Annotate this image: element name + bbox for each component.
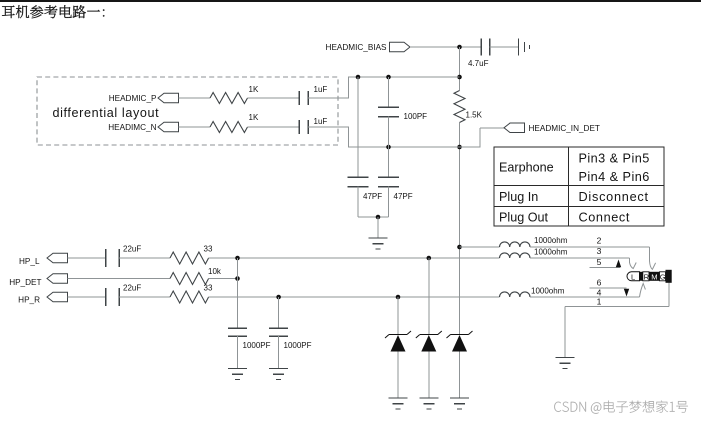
ground (D3) xyxy=(450,397,469,399)
junction dot HP_L/det xyxy=(235,256,240,261)
tvs diode D2 xyxy=(420,334,438,336)
wire HP_R to tvs1 xyxy=(397,297,399,335)
svg-text:HEADIMC_N: HEADIMC_N xyxy=(108,123,156,132)
svg-text:Plug In: Plug In xyxy=(499,190,538,204)
svg-text:6: 6 xyxy=(597,278,602,288)
svg-text:HEADMIC_BIAS: HEADMIC_BIAS xyxy=(326,43,388,52)
svg-text:1000ohm: 1000ohm xyxy=(534,236,568,245)
title 耳机参考电路一： xyxy=(2,5,104,18)
svg-text:HP_L: HP_L xyxy=(19,257,40,266)
ground (D2) xyxy=(419,397,438,399)
junction dot rail147/main xyxy=(457,145,462,150)
resistor R 1K (N) xyxy=(210,122,248,133)
junction dot 47pf join xyxy=(376,215,381,220)
junction dot HP_R/cap2 xyxy=(276,295,281,300)
wire HP_L to cap xyxy=(68,257,106,259)
wire 47pf join xyxy=(357,187,359,218)
wire 10k to junction xyxy=(209,278,238,280)
wire 33 to bead3 xyxy=(209,296,500,298)
svg-text:Pin4 & Pin6: Pin4 & Pin6 xyxy=(579,170,650,184)
svg-text:Plug Out: Plug Out xyxy=(499,211,549,225)
svg-text:1000ohm: 1000ohm xyxy=(531,287,565,296)
wire HP_R to cap2 xyxy=(278,297,280,328)
resistor 33 (L) xyxy=(170,252,209,264)
wire tvs2 to ground xyxy=(428,352,430,399)
resistor R 1K (P) xyxy=(210,93,248,104)
wire cap2 to ground xyxy=(278,336,280,369)
wire main vertical lower xyxy=(459,123,461,335)
svg-text:L: L xyxy=(631,273,635,282)
ferrite bead FB2 1000ohm xyxy=(500,253,531,258)
wire R to C (P) xyxy=(248,97,300,99)
junction dot 100pf/rail147 xyxy=(386,145,391,150)
svg-text:33: 33 xyxy=(204,245,213,254)
capacitor 47PF B xyxy=(378,176,399,178)
svg-text:22uF: 22uF xyxy=(123,284,141,293)
port HEADMIC_BIAS xyxy=(390,42,411,52)
junction dot 47pfA/rail77 xyxy=(356,75,361,80)
wire HP_R to cap xyxy=(68,296,106,298)
svg-text:33: 33 xyxy=(204,284,213,293)
tvs diode D1 xyxy=(389,334,407,336)
svg-text:47PF: 47PF xyxy=(363,192,382,201)
svg-text:HEADMIC_P: HEADMIC_P xyxy=(109,94,157,103)
wire HP_DET to R xyxy=(68,278,171,280)
capacitor 1000PF 1 xyxy=(228,327,247,329)
wire cap to R (L) xyxy=(119,257,170,259)
tvs diode D3 xyxy=(451,334,469,336)
wire BIAS to cap xyxy=(410,46,481,48)
svg-text:differential layout: differential layout xyxy=(53,106,160,120)
ground (1000PF 1) xyxy=(228,368,247,370)
hook pin3 to tip xyxy=(630,258,637,269)
wire 33 to bead2 xyxy=(209,257,500,259)
svg-text:4.7uF: 4.7uF xyxy=(468,59,489,68)
svg-text:22uF: 22uF xyxy=(123,245,141,254)
wire cap1 to ground xyxy=(237,336,239,369)
svg-text:HEADMIC_IN_DET: HEADMIC_IN_DET xyxy=(529,124,600,133)
top border rule xyxy=(0,0,701,2)
svg-text:1K: 1K xyxy=(249,85,259,94)
wire bead3 to pin4 xyxy=(530,296,640,298)
svg-text:Disconnect: Disconnect xyxy=(579,190,649,204)
port HEADIMC_N xyxy=(158,122,179,132)
junction dot 100pf/rail77 xyxy=(386,75,391,80)
svg-text:1uF: 1uF xyxy=(314,85,328,94)
svg-text:G: G xyxy=(660,273,666,282)
svg-text:HP_R: HP_R xyxy=(18,296,40,305)
resistor 33 (R) xyxy=(170,291,209,303)
pin5 arrow xyxy=(616,260,621,268)
ground (D1) xyxy=(389,397,408,399)
ground (47PF) xyxy=(369,237,388,239)
junction dot bead1/main xyxy=(457,245,462,250)
capacitor 4.7uF xyxy=(480,39,482,56)
wire HP_L to tvs2 xyxy=(428,258,430,335)
port HP_DET xyxy=(47,274,68,284)
hook pin4 to R xyxy=(640,284,646,298)
svg-text:M: M xyxy=(651,273,657,282)
wire rail77 to 47pfA xyxy=(357,77,359,177)
svg-text:Pin3 & Pin5: Pin3 & Pin5 xyxy=(579,152,650,166)
port HP_R xyxy=(47,292,68,302)
svg-text:1000PF: 1000PF xyxy=(243,341,271,350)
hook pin2 to M xyxy=(650,261,656,269)
wire cap to ground xyxy=(490,46,519,48)
table frame xyxy=(494,147,664,226)
svg-text:Earphone: Earphone xyxy=(499,161,554,175)
capacitor 22uF (R) xyxy=(105,288,107,306)
wire main to bead1 xyxy=(460,246,500,248)
wire C to bend (N) xyxy=(308,126,349,128)
pin1 line xyxy=(565,306,669,308)
resistor 10k xyxy=(170,273,209,285)
wire HEADMIC_P to R xyxy=(179,97,211,99)
junction dot HP_L/tvs2 xyxy=(427,256,432,261)
wire tvs1 to ground xyxy=(397,352,399,399)
capacitor 47PF A xyxy=(348,176,369,178)
headphone jack plug (L R M G) xyxy=(627,272,640,281)
ground (bias, rotated) xyxy=(518,39,520,56)
ground (1000PF 2) xyxy=(269,368,288,370)
port HEADMIC_P xyxy=(158,93,179,103)
svg-text:1000PF: 1000PF xyxy=(284,341,312,350)
wire tvs3 to ground xyxy=(459,352,461,399)
wire HEADIMC_N to R xyxy=(179,126,211,128)
svg-text:3: 3 xyxy=(597,246,602,256)
svg-text:100PF: 100PF xyxy=(404,112,428,121)
wire R to C (N) xyxy=(248,126,300,128)
resistor 1.5K xyxy=(454,91,465,123)
wire bead1 to pin2 xyxy=(530,246,650,248)
capacitor 22uF (L) xyxy=(105,249,107,267)
port HEADMIC_IN_DET xyxy=(504,123,525,133)
port HP_L xyxy=(47,253,68,263)
watermark CSDN xyxy=(554,401,688,414)
svg-text:1000ohm: 1000ohm xyxy=(534,248,568,257)
svg-text:5: 5 xyxy=(597,257,602,267)
wire main vertical upper xyxy=(459,47,461,91)
wire bead2 to pin3 xyxy=(530,257,630,259)
svg-text:1K: 1K xyxy=(249,113,259,122)
pin5 line xyxy=(590,267,621,269)
junction dot rail77/main xyxy=(457,75,462,80)
junction dot bias/main xyxy=(457,45,462,50)
pin6 arrow xyxy=(624,289,629,297)
junction dot HP_R/tvs1 xyxy=(396,295,401,300)
svg-text:Connect: Connect xyxy=(579,211,630,225)
svg-text:R: R xyxy=(644,273,650,282)
capacitor 100PF xyxy=(378,106,399,108)
svg-text:47PF: 47PF xyxy=(394,192,413,201)
ferrite bead FB3 1000ohm xyxy=(500,292,531,297)
capacitor 1uF (P) xyxy=(298,91,300,105)
wire join to ground xyxy=(377,217,379,238)
svg-text:HP_DET: HP_DET xyxy=(9,278,41,287)
svg-text:1: 1 xyxy=(597,297,602,307)
wire step to DET port xyxy=(479,128,481,148)
ground (pin1) xyxy=(556,357,575,359)
svg-text:1uF: 1uF xyxy=(314,117,328,126)
wire rail147 to 47pfB xyxy=(388,147,390,177)
capacitor 1uF (N) xyxy=(298,120,300,134)
pin6 line xyxy=(590,287,627,289)
wire C to bend (P) xyxy=(308,97,349,99)
wire cap to R (R) xyxy=(119,296,170,298)
ferrite bead FB1 1000ohm xyxy=(500,242,531,247)
svg-text:1.5K: 1.5K xyxy=(466,111,483,120)
wire rail77 to 100pf xyxy=(388,77,390,107)
junction dot HP_DET xyxy=(235,276,240,281)
wire HP_L/HP_DET vertical xyxy=(237,258,239,328)
wire 100pf to rail147 xyxy=(388,117,390,148)
svg-text:2: 2 xyxy=(597,236,602,246)
svg-text:10k: 10k xyxy=(208,267,222,276)
dashed box (differential layout) xyxy=(37,77,338,145)
wire rail147 xyxy=(349,146,481,148)
wire rail77 xyxy=(349,76,460,78)
capacitor 1000PF 2 xyxy=(269,327,288,329)
